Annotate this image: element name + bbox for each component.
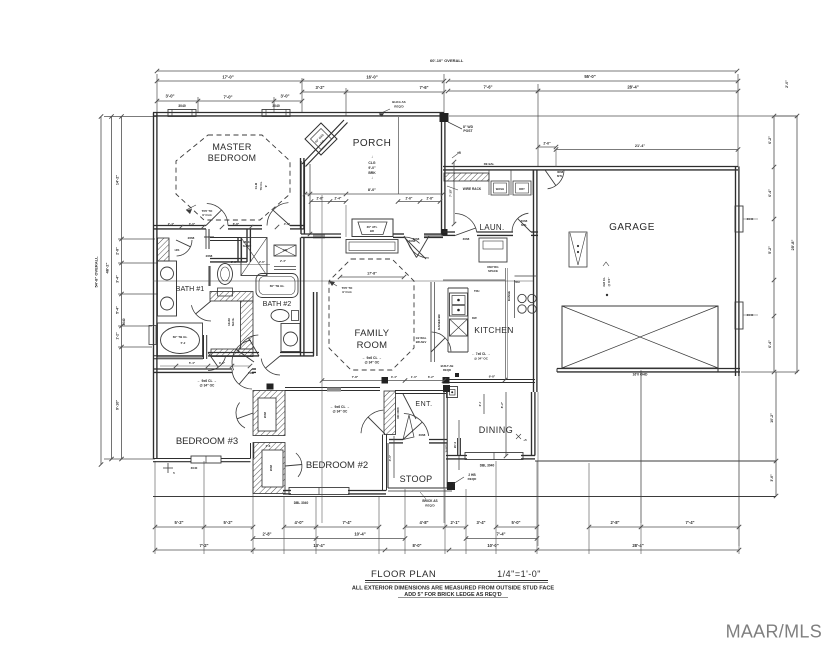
bottom dim row3 [155, 549, 253, 551]
dining clg cross [516, 434, 521, 439]
svg-text:CLM: CLM [254, 182, 258, 189]
svg-text:RE BAL: RE BAL [484, 162, 495, 166]
garage bottom wall [557, 368, 740, 370]
svg-text:BATH #2: BATH #2 [263, 299, 292, 308]
master bottom wall [153, 225, 206, 227]
kitchen sink unit [450, 293, 468, 316]
svg-text:REQ'D: REQ'D [394, 105, 404, 109]
svg-text:2'-0": 2'-0" [785, 80, 789, 88]
porch entry V door [404, 236, 417, 258]
svg-text:7'-6": 7'-6" [419, 85, 428, 90]
dim overall 60'-10 top [157, 70, 737, 72]
stoop black post [447, 482, 455, 490]
porch right dim col [453, 162, 455, 224]
svg-text:MAAR/MLS: MAAR/MLS [726, 622, 822, 642]
svg-text:ADD 5" FOR BRICK LEDGE AS REQ': ADD 5" FOR BRICK LEDGE AS REQ'D [404, 592, 501, 598]
svg-text:PORCH: PORCH [353, 138, 392, 149]
wic walls [246, 229, 248, 262]
bath1 vanity [158, 261, 177, 316]
dryer box [513, 181, 531, 195]
svg-text:@ 9'4": @ 9'4" [607, 277, 611, 287]
porch right wall [441, 122, 443, 234]
svg-text:8'-0": 8'-0" [412, 543, 421, 548]
svg-text:@ 34" OC: @ 34" OC [200, 384, 215, 388]
svg-text:60" TB GL: 60" TB GL [173, 335, 188, 339]
porch diagonal wall [302, 120, 344, 164]
dim 3'-0 window [157, 100, 198, 102]
linen closet inner [213, 301, 241, 349]
laundry top wall [443, 166, 538, 168]
porch left wall [300, 161, 302, 234]
svg-text:5'-2": 5'-2" [174, 520, 183, 525]
svg-text:CLG: CLG [368, 161, 376, 165]
hall dim row [174, 364, 178, 368]
dim left col segments [121, 117, 123, 240]
svg-text:17'-8": 17'-8" [367, 272, 377, 276]
family north window sill [313, 234, 325, 239]
svg-text:RAISED BR: RAISED BR [437, 314, 441, 329]
garage top wall [538, 166, 738, 168]
svg-text:BR: BR [370, 229, 374, 233]
kitchen door arc [432, 332, 451, 351]
svg-text:7'-4": 7'-4" [496, 532, 505, 537]
svg-text:6'-2": 6'-2" [428, 375, 435, 379]
svg-text:2'-8": 2'-8" [116, 247, 120, 255]
kitchen top counter [443, 279, 505, 281]
svg-text:BRICK AS: BRICK AS [422, 499, 437, 503]
master tray ceiling dashed [176, 135, 290, 220]
bottom dim row2 [253, 538, 316, 540]
svg-text:4'-0": 4'-0" [284, 222, 291, 226]
svg-text:5'-4": 5'-4" [189, 361, 196, 365]
bedroom2 right wall hatch [384, 391, 396, 435]
svg-text:DRY: DRY [519, 187, 525, 191]
svg-text:34 BTL: 34 BTL [445, 443, 449, 452]
laundry counter line [488, 170, 490, 195]
family west wall [313, 292, 315, 356]
closet corner post [267, 384, 274, 390]
bath2 toilet [271, 310, 289, 322]
svg-text:ENT.: ENT. [415, 401, 432, 408]
svg-text:↓: ↓ [371, 154, 373, 159]
dim 7'-6 [448, 90, 538, 92]
overhang line long [153, 496, 776, 498]
svg-text:DW: DW [472, 316, 477, 320]
svg-text:2'-8": 2'-8" [610, 520, 619, 525]
svg-text:3'-0": 3'-0" [165, 94, 174, 99]
cased opening gray [327, 388, 341, 392]
long extension f [345, 205, 347, 237]
dim 25'-8 overall right [796, 116, 798, 372]
long extension y281 [153, 280, 533, 282]
fridge box [479, 238, 507, 262]
svg-text:36" ATL: 36" ATL [367, 225, 378, 229]
svg-text:2068: 2068 [269, 464, 273, 471]
garage window 2 [735, 302, 743, 329]
garage service door [548, 170, 564, 189]
svg-text:55'-0": 55'-0" [584, 74, 595, 79]
long extension d [640, 372, 642, 523]
family bottom dim row [322, 380, 444, 382]
hall bottom wall [208, 352, 259, 354]
hall door arcs [261, 359, 280, 375]
svg-text:1'-0": 1'-0" [411, 375, 418, 379]
patio line upper [535, 460, 776, 462]
master door arcs [207, 204, 228, 226]
svg-text:DD 3068: DD 3068 [396, 407, 400, 418]
svg-text:28'-4": 28'-4" [632, 543, 643, 548]
media niche [352, 219, 393, 237]
svg-text:STOOP: STOOP [400, 474, 433, 484]
svg-text:7'-6": 7'-6" [483, 85, 492, 90]
svg-text:+5: +5 [523, 438, 527, 442]
master window 1 [168, 110, 196, 117]
bath1 pier hatch [158, 238, 170, 261]
svg-text:5'-2: 5'-2 [181, 341, 186, 345]
svg-text:3x8 CL: 3x8 CL [602, 277, 606, 287]
svg-text:6'-4": 6'-4" [768, 189, 772, 197]
svg-text:REQ'D: REQ'D [425, 504, 435, 508]
svg-text:2'-7: 2'-7 [478, 401, 482, 406]
svg-text:10'-0": 10'-0" [487, 543, 498, 548]
svg-text:10'-4": 10'-4" [354, 532, 365, 537]
svg-text:9': 9' [264, 185, 268, 188]
bath2 right wall [300, 238, 302, 293]
svg-text:2'-6": 2'-6" [543, 142, 551, 146]
title underline [365, 580, 548, 582]
svg-text:← 9x6 CL →: ← 9x6 CL → [330, 405, 350, 409]
dim right lower 10'-2 / 3'-6 [775, 372, 777, 461]
svg-text:TR CL: TR CL [259, 181, 263, 190]
svg-text:REQD: REQD [443, 368, 451, 372]
dim 7'-0 [198, 100, 274, 102]
shoe rack bar [208, 266, 210, 286]
family corner door [404, 237, 426, 259]
ent front wall [389, 439, 403, 441]
bath complex hatch right [241, 301, 254, 349]
dining window [465, 453, 523, 460]
svg-text:6'-4": 6'-4" [768, 340, 772, 348]
svg-text:9'-8": 9'-8" [489, 375, 496, 379]
svg-text:MTL: MTL [521, 223, 527, 227]
svg-text:POST: POST [463, 129, 473, 133]
snack bar lines [430, 282, 432, 362]
svg-text:← 9x6 CL →: ← 9x6 CL → [362, 356, 382, 360]
ent east wall [443, 385, 450, 392]
island counter sides [447, 288, 449, 352]
svg-text:@ 34" OC: @ 34" OC [365, 361, 380, 365]
svg-text:10'-2": 10'-2" [770, 413, 774, 423]
hb note [447, 122, 449, 140]
door threshold gray [424, 234, 443, 239]
bedroom3 top wall [153, 368, 232, 370]
porch screen line [398, 117, 400, 194]
svg-text:6'-2": 6'-2" [768, 136, 772, 144]
corner post black [440, 113, 449, 122]
svg-text:↓: ↓ [371, 175, 373, 180]
cooktop burners [518, 294, 526, 302]
laundry door right [512, 213, 528, 232]
dim 3'-2 porch [302, 91, 346, 93]
svg-text:2'-8": 2'-8" [427, 197, 434, 201]
svg-text:7'-8": 7'-8" [352, 375, 359, 379]
svg-text:1'-2": 1'-2" [116, 332, 120, 340]
svg-text:← 7x6 CL →: ← 7x6 CL → [472, 352, 491, 356]
bath2 tub [256, 274, 298, 298]
svg-text:5'-4": 5'-4" [116, 306, 120, 314]
svg-text:SPACE: SPACE [488, 269, 498, 273]
long extension b [443, 430, 445, 523]
svg-text:28'-4": 28'-4" [627, 85, 638, 90]
svg-text:TRH: TRH [474, 289, 479, 293]
svg-text:SHWR: SHWR [243, 244, 252, 248]
master window 2 [262, 110, 290, 117]
svg-text:9'-10": 9'-10" [116, 400, 120, 411]
bath2 vanity [281, 324, 300, 352]
svg-text:9' CLG: 9' CLG [342, 290, 352, 294]
fireplace diamond [305, 123, 337, 155]
svg-text:BEDROOM: BEDROOM [208, 153, 257, 163]
svg-text:ALL EXTERIOR DIMENSIONS ARE ME: ALL EXTERIOR DIMENSIONS ARE MEASURED FRO… [352, 586, 555, 592]
dim right col segments [449, 115, 798, 117]
svg-text:13'-4": 13'-4" [313, 543, 324, 548]
svg-text:2'-8": 2'-8" [262, 532, 271, 537]
left exterior wall [153, 113, 155, 460]
bath complex hatch bottom [211, 349, 253, 357]
svg-text:LAUN.: LAUN. [479, 223, 504, 232]
laundry wire rack hatch [444, 173, 489, 181]
porch col dim [309, 164, 311, 234]
svg-text:17'-0": 17'-0" [222, 75, 233, 80]
dishwasher x-box [450, 319, 468, 336]
svg-text:3'-0": 3'-0" [219, 361, 226, 365]
svg-text:8'-0": 8'-0" [368, 188, 376, 192]
svg-text:TRH: TRH [514, 280, 519, 284]
porch floor dim line [305, 193, 443, 195]
bath1 wc wall [237, 238, 239, 263]
svg-text:WIRE RACK: WIRE RACK [463, 187, 482, 191]
ent diag closet [403, 394, 416, 419]
bath2 door [238, 335, 258, 353]
svg-text:4'-8": 4'-8" [419, 520, 428, 525]
bottom extension lines [154, 461, 156, 554]
closet upper door [236, 403, 245, 429]
svg-text:3068: 3068 [409, 239, 416, 243]
garage window 1 [735, 206, 743, 232]
stoop dims [393, 436, 395, 478]
left extension lines [104, 116, 157, 118]
laundry bottom wall [443, 231, 455, 233]
tub alcove south wall [153, 355, 203, 357]
svg-text:3068: 3068 [463, 237, 470, 241]
svg-text:16'-0": 16'-0" [366, 75, 377, 80]
svg-text:KITCHEN: KITCHEN [474, 325, 513, 335]
garage right wall [735, 167, 737, 377]
svg-text:DBL 3040: DBL 3040 [294, 501, 309, 505]
svg-text:MTL: MTL [557, 174, 563, 178]
long extension c [537, 392, 539, 546]
dining right wall [531, 392, 533, 456]
bottom dim row1 [155, 526, 204, 528]
closet column hatch upper [253, 391, 285, 436]
svg-text:3040: 3040 [191, 466, 198, 470]
kitchen dining dim [483, 394, 485, 414]
bath complex hatch top [210, 292, 253, 302]
svg-text:3040: 3040 [122, 318, 126, 325]
svg-text:3'-6: 3'-6 [266, 444, 271, 448]
garage apron lines [556, 372, 558, 461]
svg-text:4'-0": 4'-0" [388, 454, 392, 461]
svg-text:2'-6": 2'-6" [231, 260, 238, 264]
washer box [491, 181, 509, 195]
svg-text:1/4"=1'-0": 1/4"=1'-0" [497, 569, 541, 579]
garage 21-4 dim [556, 149, 738, 151]
bedroom3 door [232, 370, 252, 389]
svg-text:SH CL: SH CL [231, 318, 235, 327]
bedroom3 window [191, 456, 221, 463]
master right wall [300, 158, 302, 229]
svg-text:MASTER: MASTER [212, 142, 252, 152]
svg-text:2'-4": 2'-4" [168, 222, 175, 226]
long extension e [738, 376, 740, 546]
svg-text:BATH #1: BATH #1 [176, 284, 205, 293]
bath1 toilet [218, 288, 233, 296]
svg-text:WASH: WASH [496, 187, 504, 191]
dim 55'-0 [448, 80, 738, 82]
bedroom2 bottom wall [283, 490, 291, 492]
family room tray ceiling dashed [329, 259, 414, 370]
svg-text:5'-0": 5'-0" [511, 520, 520, 525]
dining dim line [505, 392, 507, 456]
front door [404, 414, 429, 436]
svg-text:@ 34" OC: @ 34" OC [333, 410, 348, 414]
garage attic stair [569, 232, 587, 267]
svg-text:@ 34" OC: @ 34" OC [474, 357, 489, 361]
bath1 shower [241, 238, 267, 276]
svg-text:BEDROOM #3: BEDROOM #3 [176, 436, 238, 447]
svg-text:3'-4": 3'-4" [391, 375, 398, 379]
svg-text:3040: 3040 [178, 104, 186, 108]
svg-text:2068: 2068 [263, 411, 267, 418]
svg-text:3'-4": 3'-4" [116, 275, 120, 283]
hearth [346, 240, 398, 254]
post leader note [448, 122, 462, 129]
master clg leader [186, 205, 196, 210]
svg-text:← 9x6 CL →: ← 9x6 CL → [197, 379, 217, 383]
bedroom2 right wall [382, 435, 384, 491]
svg-text:HIS: HIS [175, 248, 180, 252]
svg-text:54'-8" OVERALL: 54'-8" OVERALL [94, 256, 99, 288]
svg-text:9' CLG: 9' CLG [202, 213, 212, 217]
dim 3'-0 window b [274, 100, 302, 102]
family ceiling dim [340, 276, 404, 278]
bath2 linen [274, 245, 296, 256]
svg-text:LIN: LIN [283, 248, 288, 252]
stoop hb note [453, 477, 464, 484]
svg-text:3068: 3068 [419, 433, 426, 437]
svg-text:2'-6": 2'-6" [406, 197, 413, 201]
svg-text:25'-8": 25'-8" [790, 239, 795, 250]
dim 7'-6 porch [346, 91, 444, 93]
svg-text:7'-4": 7'-4" [342, 520, 351, 525]
svg-text:6'-8": 6'-8" [233, 222, 240, 226]
svg-text:20'-0: 20'-0 [453, 441, 457, 448]
svg-text:60" TB GL: 60" TB GL [270, 284, 285, 288]
dim 48'-2 left [111, 117, 113, 460]
stoop walls [387, 443, 389, 488]
bedroom3 bottom wall [153, 458, 191, 460]
garage door panel [562, 306, 718, 368]
top exterior wall [153, 112, 444, 114]
kitchen dim vline [505, 268, 507, 380]
bedroom2 top wall [285, 387, 380, 389]
dim 17'-0 master width [157, 80, 302, 82]
svg-text:7'-4": 7'-4" [685, 520, 694, 525]
svg-text:2668: 2668 [206, 254, 213, 258]
closet column hatch lower [253, 443, 285, 494]
svg-text:8'-2": 8'-2" [500, 401, 504, 408]
bedroom2 window [289, 488, 349, 495]
garage door opening [556, 369, 558, 373]
svg-text:5'-2": 5'-2" [223, 520, 232, 525]
svg-text:2668: 2668 [188, 236, 195, 240]
bath1 door [191, 305, 211, 321]
bath window left wall [149, 326, 156, 345]
closet stub wall [208, 229, 210, 249]
dim 54'-8 overall left [100, 117, 102, 465]
bath1 tub [158, 323, 203, 357]
svg-text:2'-4": 2'-4" [280, 259, 287, 263]
svg-text:DBL 3040: DBL 3040 [480, 464, 495, 468]
svg-text:BR ABV: BR ABV [416, 340, 427, 344]
svg-text:GARAGE: GARAGE [609, 222, 655, 233]
svg-text:3040: 3040 [272, 104, 280, 108]
svg-text:60'-10" OVERALL: 60'-10" OVERALL [430, 58, 464, 63]
family clg leader [329, 281, 337, 286]
long extension a [321, 195, 323, 523]
hall door 2468 [232, 340, 251, 370]
extension lines top [156, 74, 158, 112]
black post bed2 corner [382, 377, 389, 384]
dim 16'-0 porch width [302, 80, 444, 82]
closet lower door [296, 453, 302, 477]
svg-text:ROOM: ROOM [357, 340, 388, 351]
bottom dim 28'-4 garage row [537, 549, 739, 551]
kitchen bottom wall [449, 379, 535, 381]
svg-text:7'-0": 7'-0" [223, 95, 232, 100]
svg-text:3'-0": 3'-0" [189, 222, 196, 226]
svg-text:FAMILY: FAMILY [355, 328, 390, 339]
svg-text:3'-0": 3'-0" [280, 94, 289, 99]
dining bottom wall [446, 455, 467, 457]
svg-text:3'-6": 3'-6" [770, 474, 774, 482]
laundry corner post [442, 229, 448, 236]
svg-text:7'-10": 7'-10" [449, 188, 453, 196]
bedroom2 door [361, 410, 383, 433]
bath1 entry door [177, 240, 192, 256]
dining west wall [457, 438, 459, 456]
svg-text:5'-2": 5'-2" [768, 246, 772, 254]
svg-text:BLKG AS: BLKG AS [392, 100, 405, 104]
svg-text:14'-2": 14'-2" [116, 175, 120, 186]
porch bottom wall / family top [301, 233, 341, 235]
garage left wall [533, 170, 535, 392]
svg-text:2'-6": 2'-6" [259, 260, 266, 264]
svg-text:REQD: REQD [468, 477, 478, 481]
dim 28'-4 garage [538, 90, 738, 92]
svg-text:3'-2": 3'-2" [315, 85, 324, 90]
svg-text:2'-1": 2'-1" [450, 520, 459, 525]
